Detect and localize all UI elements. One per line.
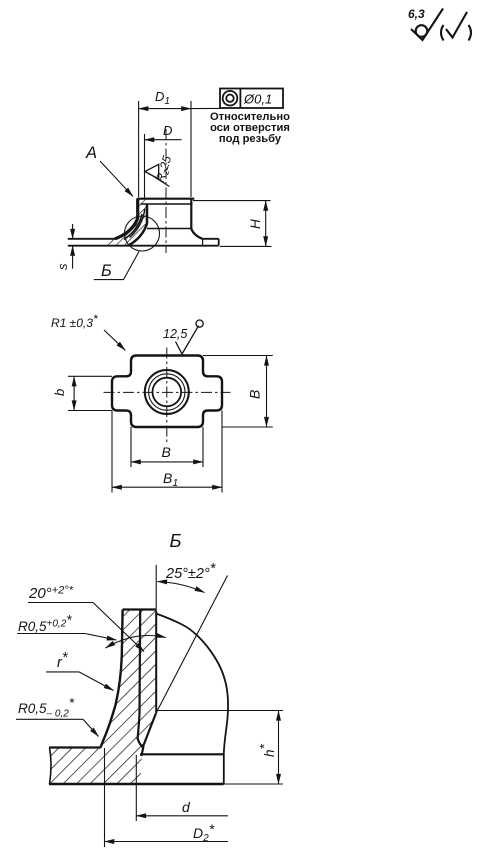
arc 25 deg — [157, 582, 204, 593]
plate top left — [68, 238, 117, 240]
dimension d — [135, 755, 137, 821]
plate right end — [218, 239, 220, 246]
thread middle circle — [149, 374, 185, 410]
thread outer circle — [145, 370, 189, 414]
svg-text:D: D — [163, 123, 172, 138]
right flare skirt — [191, 229, 202, 239]
dimension s — [72, 224, 74, 239]
svg-text:В: В — [247, 390, 263, 399]
hole inner circle — [153, 378, 182, 407]
hatch left wall and plate (section) — [106, 199, 147, 246]
horizontal centerline view2 — [104, 391, 231, 393]
dimension h* — [156, 710, 283, 712]
plate bottom — [68, 245, 219, 247]
base left break edge — [50, 748, 52, 785]
roughness symbol 6,3 general (top right) — [411, 9, 443, 41]
svg-text:d: d — [182, 799, 191, 815]
dimension H — [193, 200, 271, 202]
wall middle edge — [138, 610, 144, 757]
boss outer right wall — [190, 199, 192, 229]
roughness Rz25 on bore — [145, 164, 170, 186]
boss top face — [137, 198, 195, 200]
bore chamfer edge — [141, 203, 193, 205]
dimension b — [68, 375, 112, 377]
dimension В1 bottom — [111, 411, 113, 493]
svg-text:А: А — [85, 144, 97, 162]
flare tangent line — [147, 228, 191, 230]
tolerance frame — [220, 89, 283, 109]
cross-shaped outline — [112, 356, 222, 428]
svg-text:под резьбу: под резьбу — [219, 133, 282, 145]
svg-text:Б: Б — [170, 530, 182, 551]
svg-text:Б: Б — [101, 262, 112, 280]
hatch detail section — [50, 610, 156, 785]
vertical centerline view2 — [166, 348, 168, 444]
dimension D — [144, 134, 146, 198]
svg-text:6,3: 6,3 — [408, 7, 425, 21]
svg-text:Ø0,1: Ø0,1 — [243, 92, 272, 107]
leader R1 — [104, 330, 125, 350]
roughness 12,5 on top edge — [176, 320, 204, 354]
svg-text:H: H — [248, 219, 263, 229]
svg-text:12,5: 12,5 — [163, 327, 187, 341]
svg-text:В: В — [162, 444, 171, 460]
dome contour — [156, 614, 228, 785]
detail circle Б — [125, 216, 160, 251]
wall right edge — [155, 611, 157, 713]
base bottom edge — [49, 783, 224, 785]
boss outer left wall — [115, 199, 138, 239]
arc 20 deg — [106, 636, 166, 649]
skirt foot divider — [202, 239, 204, 246]
dimension D1 — [138, 101, 140, 197]
dimension В bottom — [130, 427, 132, 467]
vertical reference for 25 — [155, 565, 157, 611]
slanted line 25 deg — [156, 576, 228, 714]
wall top edge — [123, 608, 157, 610]
svg-text:s: s — [55, 263, 70, 270]
flare slant — [142, 713, 156, 748]
inner base line — [140, 753, 224, 755]
checkmark in parentheses (✓) — [441, 12, 471, 41]
svg-text:b: b — [52, 389, 67, 396]
dimension D2* — [104, 748, 106, 847]
plate top right — [202, 238, 218, 240]
base top edge — [49, 746, 101, 748]
wall left edge — [101, 610, 123, 748]
bore left wall — [128, 204, 147, 246]
centerline view1 — [165, 129, 167, 253]
leader Б — [94, 252, 139, 280]
dimension B right — [203, 355, 273, 357]
leader A — [100, 161, 133, 197]
